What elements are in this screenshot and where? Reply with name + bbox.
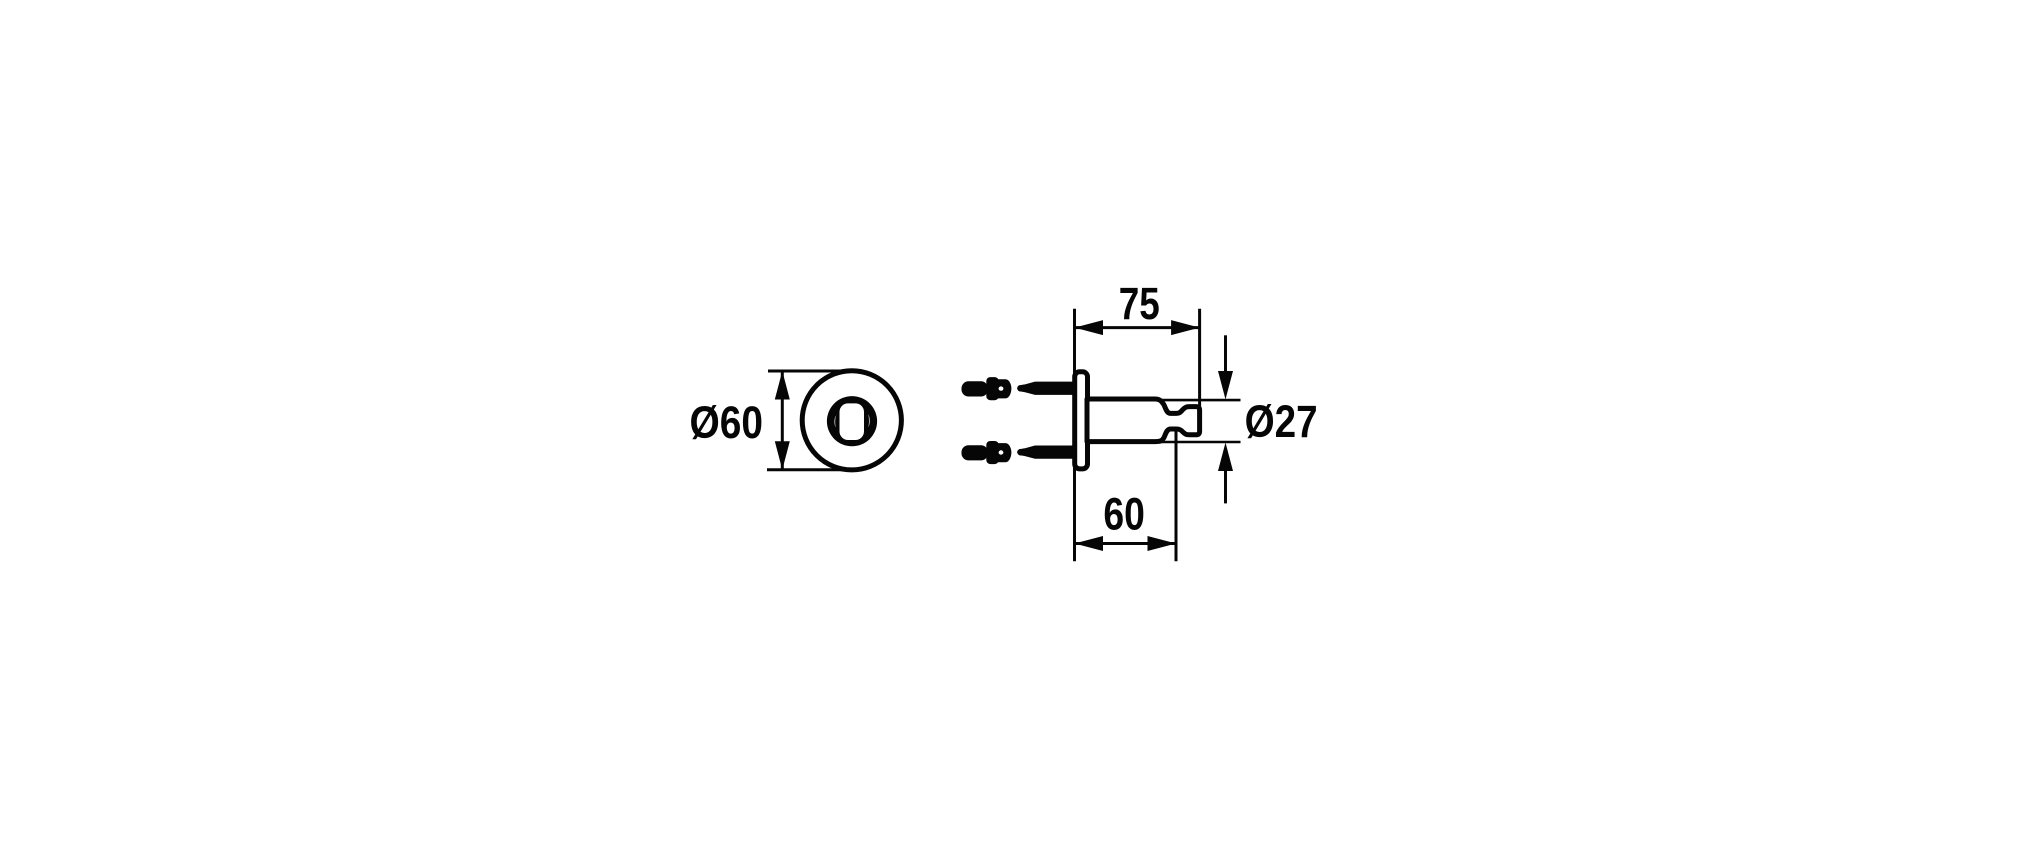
rosette outer circle	[802, 371, 901, 470]
wall anchor top	[962, 377, 1012, 400]
arrowhead up	[775, 371, 790, 400]
arrowhead 75 right	[1171, 320, 1200, 335]
extension line top (Ø60)	[768, 370, 853, 373]
wall anchor bottom	[962, 441, 1012, 464]
dimension line 75	[1075, 326, 1200, 329]
rosette inner disc	[827, 396, 877, 446]
arrowhead 60 right	[1148, 536, 1177, 551]
arrowhead down	[775, 441, 790, 470]
svg-text:75: 75	[1119, 278, 1160, 329]
screw top	[1017, 382, 1074, 395]
Ø27 arrow bottom	[1224, 466, 1227, 503]
screw bottom	[1017, 446, 1074, 459]
arrowhead 75 left	[1075, 320, 1104, 335]
right highlight crescent	[868, 414, 870, 427]
svg-text:60: 60	[1103, 488, 1145, 539]
svg-text:Ø60: Ø60	[690, 397, 764, 448]
Ø27 extension line bottom	[1155, 441, 1241, 444]
Ø27 extension line top	[1155, 399, 1241, 402]
extension line left (wall face, for 75 and 60)	[1073, 309, 1076, 562]
svg-text:Ø27: Ø27	[1245, 396, 1318, 447]
arrowhead 60 left	[1075, 536, 1104, 551]
square socket hole	[840, 403, 865, 440]
extension line bottom (Ø60)	[767, 468, 853, 471]
dimension line Ø60 vertical	[781, 371, 784, 470]
dimension line 60	[1075, 542, 1177, 545]
holder body with notch and end ring	[1087, 399, 1200, 442]
extension line right (for 60, from notch centre)	[1175, 430, 1178, 562]
extension line right (for 75)	[1198, 309, 1201, 406]
Ø27 arrow top	[1224, 335, 1227, 378]
wall flange plate	[1075, 372, 1088, 469]
left highlight crescent	[834, 415, 836, 427]
